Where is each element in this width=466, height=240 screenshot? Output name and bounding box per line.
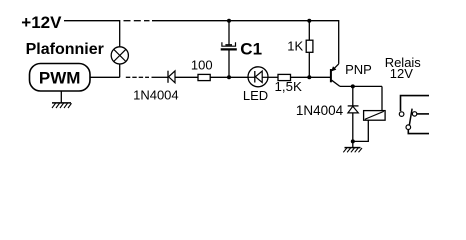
wire +12V rail right	[152, 21, 339, 64]
wire D1 to R1	[175, 76, 198, 78]
node collector junction	[351, 84, 355, 88]
resistor R1 100	[198, 74, 210, 80]
svg-text:12V: 12V	[390, 66, 413, 81]
svg-text:C1: C1	[240, 39, 262, 58]
wire collector to relay coil	[381, 86, 383, 110]
svg-text:PNP: PNP	[345, 62, 372, 77]
diode D1 1N4004	[168, 71, 175, 83]
wire D2 bottom lead	[352, 113, 354, 141]
diode D2 1N4004 flyback	[348, 106, 359, 113]
wire coil bottom lead	[353, 120, 369, 141]
lamp Plafonnier	[111, 47, 128, 64]
label 1K	[287, 39, 303, 54]
wire +12V rail left	[64, 21, 120, 47]
svg-text:100: 100	[191, 58, 213, 73]
node C1 top junction	[227, 19, 231, 23]
wire LED to R2	[268, 76, 278, 78]
relay contact pole terminal	[399, 112, 404, 117]
wire C1 top lead	[228, 21, 230, 45]
svg-text:1N4004: 1N4004	[133, 88, 179, 103]
node base junction	[307, 75, 311, 79]
wire signal dashed continuation	[126, 76, 149, 78]
label C1	[240, 39, 262, 58]
node C1 bottom junction	[227, 75, 231, 79]
svg-text:1,5K: 1,5K	[275, 79, 302, 94]
transistor Q1 PNP	[331, 64, 340, 87]
label Relais	[385, 55, 422, 70]
label LED	[243, 88, 268, 103]
node +12V label	[21, 13, 62, 32]
svg-text:1N4004: 1N4004	[296, 103, 344, 118]
ground under PWM	[52, 91, 72, 108]
wire R2 to base	[291, 76, 331, 78]
svg-text:+12V: +12V	[21, 13, 62, 32]
wire collector	[340, 85, 382, 87]
wire signal to diode D1	[152, 76, 168, 78]
label PNP	[345, 62, 372, 77]
wire lamp to signal line	[119, 64, 121, 77]
wire R1 to LED	[210, 76, 248, 78]
label 1N4004 (D2)	[296, 103, 344, 118]
relay contact NO terminal	[406, 125, 429, 134]
resistor R2 1,5K	[278, 74, 291, 80]
LED D3	[248, 67, 268, 87]
label 100	[191, 58, 213, 73]
svg-text:LED: LED	[243, 88, 268, 103]
block PWM U1	[30, 64, 91, 92]
ground under relay	[343, 141, 362, 152]
label 1N4004 (D1)	[133, 88, 179, 103]
node 1K top junction	[307, 19, 311, 23]
label 12V	[390, 66, 413, 81]
relay coil K1	[364, 111, 386, 121]
wire D2 top lead	[352, 86, 354, 106]
label Plafonnier	[26, 41, 104, 58]
relay contact NC terminal	[412, 112, 429, 116]
wire top dashed continuation	[124, 20, 150, 22]
wire 1K top lead	[308, 21, 310, 41]
wire 1K bottom lead	[308, 52, 310, 77]
capacitor C1	[221, 42, 237, 49]
wire PWM output	[90, 76, 120, 78]
svg-text:Plafonnier: Plafonnier	[26, 41, 104, 58]
wire C1 bottom lead	[228, 49, 230, 77]
resistor R3 1K	[306, 40, 313, 52]
label 1,5K	[275, 79, 302, 94]
svg-text:PWM: PWM	[39, 68, 81, 87]
relay contact common wire	[401, 96, 430, 112]
node ground junction	[351, 139, 355, 143]
svg-text:1K: 1K	[287, 39, 303, 54]
relay contact moving arm	[409, 109, 412, 125]
